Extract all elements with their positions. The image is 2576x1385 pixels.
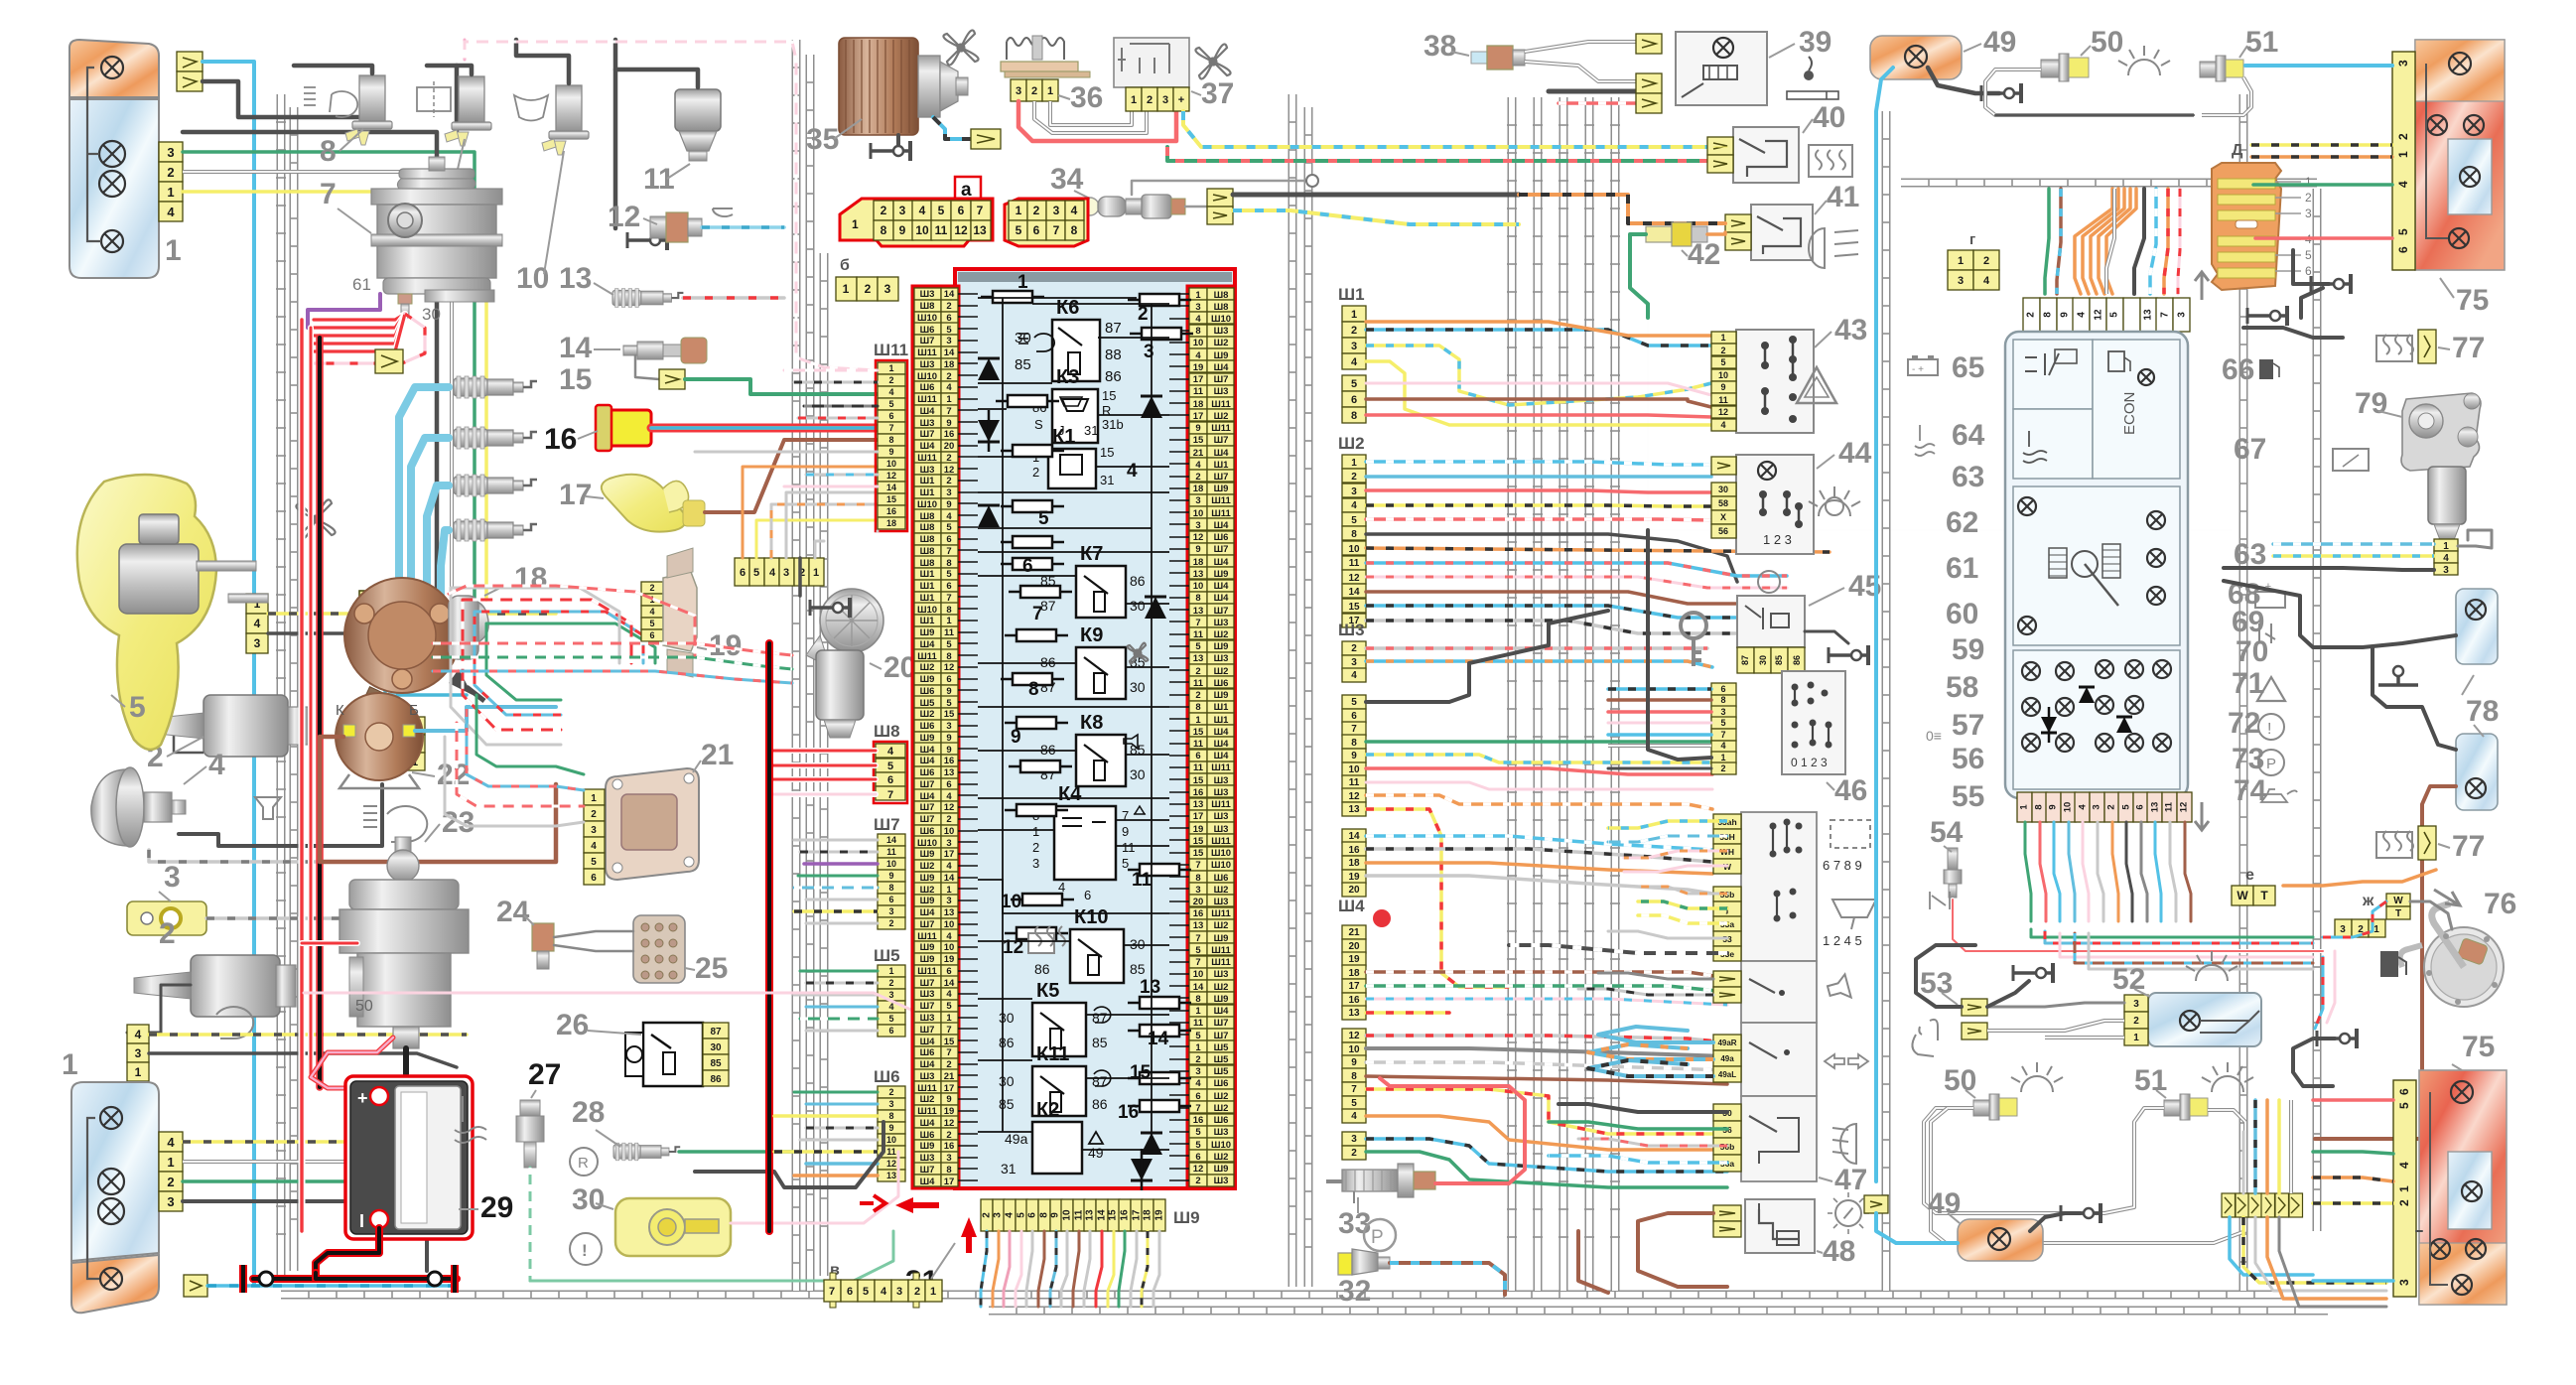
svg-text:Ш8: Ш8 [920, 558, 935, 569]
instrument cluster connector bottom [2017, 792, 2032, 822]
svg-text:67: 67 [2234, 433, 2266, 466]
wires Sh2 right [1366, 462, 1711, 465]
svg-text:Ш5: Ш5 [1214, 1054, 1230, 1065]
svg-text:18: 18 [1193, 484, 1204, 494]
connector 15 arrow [659, 369, 685, 389]
svg-text:26: 26 [556, 1009, 589, 1041]
svg-text:Ш7: Ш7 [1214, 374, 1229, 385]
svg-text:8: 8 [2043, 312, 2054, 318]
svg-text:Ш2: Ш2 [1214, 885, 1229, 896]
svg-text:Ш6: Ш6 [1214, 678, 1229, 689]
svg-text:7: 7 [1195, 1103, 1200, 1114]
svg-text:30: 30 [422, 305, 441, 324]
svg-text:К6: К6 [1056, 297, 1079, 319]
svg-text:6: 6 [2397, 1088, 2411, 1095]
svg-text:Ш2: Ш2 [920, 709, 935, 720]
wire yellow pin4 [183, 192, 486, 600]
wires Sh1 right [1366, 330, 1711, 346]
svg-text:8: 8 [888, 1111, 893, 1121]
svg-text:10: 10 [944, 826, 955, 837]
svg-text:5: 5 [1195, 1031, 1201, 1041]
svg-text:1: 1 [1195, 715, 1201, 726]
svg-text:30: 30 [1130, 598, 1146, 614]
wires Sh11 left [784, 369, 878, 372]
svg-text:4: 4 [1127, 461, 1138, 482]
svg-text:11: 11 [1193, 678, 1204, 689]
svg-text:6: 6 [1033, 223, 1040, 237]
relay K3 [1052, 389, 1098, 443]
svg-text:16: 16 [1118, 1102, 1139, 1123]
icon rear wiper [2333, 449, 2369, 471]
svg-text:10: 10 [1348, 544, 1360, 555]
svg-text:4: 4 [1720, 741, 1725, 751]
svg-text:13: 13 [1193, 569, 1204, 580]
ignition key icon [1681, 613, 1706, 638]
svg-text:Ш3: Ш3 [1214, 787, 1229, 798]
svg-text:Ш11: Ш11 [917, 1106, 937, 1117]
svg-text:Ш1: Ш1 [920, 569, 936, 580]
svg-text:8: 8 [946, 651, 951, 662]
svg-text:Ш11: Ш11 [1211, 508, 1231, 519]
svg-text:3: 3 [254, 636, 261, 650]
svg-text:4: 4 [946, 791, 952, 802]
icon triangle right [2257, 677, 2285, 701]
svg-text:44: 44 [1838, 437, 1872, 470]
svg-text:1: 1 [165, 234, 182, 267]
svg-text:61: 61 [352, 275, 371, 294]
icon dash light [1835, 1200, 1861, 1226]
voltmeter icon 65 [2025, 353, 2059, 375]
svg-text:31: 31 [1084, 423, 1098, 438]
svg-text:12: 12 [608, 201, 640, 233]
svg-text:6: 6 [946, 534, 951, 545]
svg-text:2: 2 [946, 301, 951, 312]
headlamp unit 1 top-left [69, 99, 159, 278]
svg-text:16: 16 [944, 429, 955, 440]
svg-text:5: 5 [938, 204, 945, 217]
svg-text:3: 3 [1351, 486, 1357, 497]
wire dark pin3 [183, 132, 437, 635]
svg-text:8: 8 [320, 135, 337, 168]
svg-text:P: P [2266, 756, 2276, 772]
battery ground terminals [239, 1265, 247, 1293]
wire red 36 [1018, 101, 1176, 141]
svg-text:Ш2: Ш2 [1214, 1091, 1229, 1102]
svg-text:Ш11: Ш11 [917, 966, 937, 977]
svg-text:Ш7: Ш7 [920, 336, 935, 346]
svg-text:5: 5 [946, 569, 952, 580]
svg-text:Ш7: Ш7 [920, 1165, 935, 1176]
svg-text:Ш6: Ш6 [1214, 1078, 1229, 1089]
svg-text:10: 10 [1718, 370, 1728, 380]
tail lamp 75 bottom connector [2393, 1080, 2416, 1297]
svg-text:4: 4 [1351, 500, 1357, 511]
svg-text:11: 11 [944, 627, 955, 638]
connector 654321 [735, 558, 749, 586]
svg-text:Ш2: Ш2 [1214, 982, 1229, 993]
svg-text:11: 11 [1349, 558, 1360, 569]
wire harness left inner [792, 40, 801, 1291]
svg-text:Ш9: Ш9 [920, 1141, 935, 1152]
temp gauge icon 64 [2023, 431, 2047, 463]
wire brown 32 [1390, 1263, 1505, 1295]
svg-text:86: 86 [710, 1074, 722, 1085]
svg-text:Ш7: Ш7 [1214, 472, 1229, 483]
sensor 13 [612, 289, 683, 308]
svg-text:13: 13 [1193, 799, 1204, 810]
svg-text:R: R [578, 1155, 589, 1172]
svg-text:15: 15 [1348, 602, 1360, 613]
battery 29 [345, 1076, 473, 1239]
wire dark 75 bottom ground [2293, 1039, 2335, 1086]
svg-text:12: 12 [944, 802, 955, 813]
rear wiper motor 79 [2401, 393, 2481, 471]
svg-text:10: 10 [915, 223, 929, 237]
svg-text:2: 2 [1033, 204, 1040, 217]
svg-text:5: 5 [1351, 697, 1357, 708]
svg-text:Ш9: Ш9 [1214, 1164, 1229, 1175]
svg-text:9: 9 [946, 1094, 951, 1105]
connector 19 [641, 582, 663, 594]
svg-text:8: 8 [2034, 804, 2045, 809]
svg-text:Ш7: Ш7 [874, 815, 900, 834]
icon battery left 65 [1908, 359, 1938, 375]
relay K1 [1048, 449, 1096, 488]
svg-text:4: 4 [2443, 553, 2449, 564]
svg-text:14: 14 [944, 347, 955, 358]
svg-text:5: 5 [1351, 1098, 1357, 1109]
mounting block left pin strip [912, 286, 959, 1188]
svg-text:14: 14 [559, 332, 593, 364]
svg-text:20: 20 [1348, 885, 1360, 896]
svg-text:7: 7 [1351, 1084, 1357, 1095]
lamp socket 51 top [2200, 62, 2216, 77]
svg-text:+: + [357, 1088, 368, 1108]
svg-text:Ш11: Ш11 [1211, 762, 1231, 773]
svg-text:7: 7 [887, 789, 893, 801]
wire brown 48 [1638, 1213, 1727, 1287]
connector 34 arrows [1207, 189, 1233, 207]
icon P right [2258, 750, 2284, 775]
svg-text:2: 2 [888, 978, 893, 988]
light switch 44 [1736, 455, 1814, 554]
svg-text:T: T [2260, 889, 2268, 902]
svg-text:Ш3: Ш3 [920, 1153, 935, 1164]
svg-text:75: 75 [2462, 1031, 2495, 1063]
mounting block label 31 [961, 1217, 977, 1253]
svg-text:85: 85 [1774, 655, 1784, 665]
svg-text:64: 64 [1952, 419, 1985, 452]
svg-text:21: 21 [1348, 927, 1360, 938]
svg-text:5: 5 [1195, 1127, 1201, 1138]
ignition cables blue [399, 387, 449, 604]
svg-text:11: 11 [1122, 840, 1136, 855]
svg-text:17: 17 [944, 1177, 955, 1187]
washer pump 8 [359, 75, 385, 123]
svg-text:К5: К5 [1036, 980, 1059, 1002]
svg-text:7: 7 [888, 423, 893, 433]
svg-text:54: 54 [1930, 816, 1964, 849]
wire pink dashed top run [465, 42, 878, 370]
svg-text:7: 7 [946, 1047, 951, 1058]
svg-text:Ш4: Ш4 [1214, 581, 1230, 592]
svg-text:30: 30 [999, 1010, 1015, 1026]
wire purple 61 [308, 294, 380, 328]
svg-text:4: 4 [135, 1028, 142, 1041]
dark wire 52 top [1916, 945, 1975, 1007]
svg-text:11: 11 [1349, 777, 1360, 788]
svg-text:79: 79 [2355, 387, 2387, 420]
wires to 46 [1608, 687, 1711, 691]
svg-text:Ш10: Ш10 [917, 605, 937, 616]
svg-text:Ш1: Ш1 [920, 476, 936, 486]
svg-text:5: 5 [1195, 945, 1201, 956]
svg-text:9: 9 [1122, 824, 1129, 839]
svg-text:5: 5 [888, 1014, 893, 1024]
svg-text:Ш5: Ш5 [1214, 1042, 1230, 1053]
svg-text:1: 1 [946, 1013, 952, 1024]
wire red starter [302, 940, 357, 946]
svg-text:10: 10 [1348, 1044, 1360, 1055]
svg-text:86: 86 [1092, 1096, 1108, 1112]
svg-text:87: 87 [1740, 655, 1750, 665]
svg-text:Ш11: Ш11 [917, 1083, 937, 1094]
ignition coil 22 [336, 693, 423, 780]
svg-text:13: 13 [1193, 920, 1204, 931]
additional resistor 36 [1001, 62, 1078, 71]
wire pink long bottom [304, 993, 913, 1092]
icon warning triangle [1797, 367, 1836, 403]
svg-text:14: 14 [944, 978, 955, 989]
svg-text:2: 2 [1351, 643, 1357, 654]
svg-text:27: 27 [528, 1058, 561, 1091]
svg-text:31: 31 [1100, 473, 1114, 487]
fuel gauge icon 66 [2108, 351, 2124, 371]
svg-text:К10: К10 [1074, 906, 1108, 928]
svg-text:12: 12 [1348, 573, 1360, 584]
svg-text:5: 5 [2109, 312, 2120, 318]
wires 50 51 bottom white loops [1924, 1108, 2164, 1213]
svg-text:43: 43 [1834, 314, 1867, 346]
svg-text:8: 8 [1720, 695, 1725, 705]
svg-text:6: 6 [1195, 751, 1200, 762]
svg-text:7: 7 [1195, 860, 1200, 871]
svg-text:Ш3: Ш3 [1214, 618, 1229, 628]
electric fan motor 5 [77, 475, 216, 750]
svg-text:2: 2 [1138, 304, 1149, 325]
svg-text:Ш10: Ш10 [1211, 1140, 1231, 1151]
svg-text:36: 36 [1070, 81, 1103, 114]
connector arrow 35 [971, 129, 1001, 149]
svg-text:6: 6 [1720, 684, 1725, 694]
wire brown coil left [320, 737, 556, 862]
wires cluster to right [2031, 929, 2313, 937]
svg-text:2: 2 [649, 583, 654, 593]
svg-text:3: 3 [946, 487, 951, 498]
icon 8 [330, 91, 357, 117]
svg-text:19: 19 [1348, 872, 1360, 883]
svg-text:8: 8 [946, 605, 951, 616]
svg-text:!: ! [582, 1241, 588, 1260]
svg-text:9: 9 [2048, 804, 2059, 809]
svg-text:49aR: 49aR [1717, 1039, 1736, 1047]
svg-text:Ш1: Ш1 [1338, 285, 1365, 304]
wire black trunk with red edge [316, 338, 324, 1087]
instrument cluster connector top [2023, 298, 2040, 332]
wire harness vertical right [2313, 189, 2322, 1231]
svg-text:12: 12 [1348, 791, 1360, 802]
svg-text:59: 59 [1952, 633, 1984, 666]
svg-text:3: 3 [1351, 657, 1357, 668]
wire dark 53 ground [1987, 981, 2029, 1007]
wire green 27 [529, 1168, 532, 1281]
svg-text:49a: 49a [1720, 1054, 1734, 1063]
svg-text:- +: - + [1912, 364, 1924, 375]
svg-text:2: 2 [1031, 85, 1037, 97]
svg-text:15: 15 [1193, 836, 1204, 847]
wire dark 49 ground [1928, 68, 1999, 93]
svg-text:8: 8 [946, 558, 951, 569]
svg-text:6: 6 [888, 411, 893, 421]
connector arrow bottom [184, 1275, 207, 1297]
svg-text:Ш4: Ш4 [920, 745, 936, 756]
connector 431 bottom [127, 1025, 149, 1043]
svg-text:6: 6 [1351, 394, 1357, 406]
fan icon 37 [1195, 44, 1230, 78]
svg-text:Ш4: Ш4 [1214, 751, 1230, 762]
svg-text:16: 16 [886, 506, 896, 516]
icon fuel right [2259, 359, 2273, 379]
svg-text:К3: К3 [1056, 366, 1079, 388]
svg-text:Ш1: Ш1 [920, 487, 936, 498]
icon 9 [417, 87, 451, 111]
svg-text:8: 8 [881, 223, 887, 237]
svg-text:5: 5 [1038, 508, 1049, 529]
svg-text:1: 1 [167, 185, 174, 200]
svg-text:1: 1 [62, 1048, 78, 1081]
svg-text:16: 16 [1193, 1115, 1204, 1126]
svg-text:17: 17 [1193, 411, 1204, 422]
svg-text:Ш11: Ш11 [917, 347, 937, 358]
svg-text:66: 66 [2222, 353, 2254, 386]
svg-text:Ш2: Ш2 [920, 885, 935, 896]
icon foglamp small [216, 1007, 253, 1039]
ignition module 21 [606, 768, 699, 880]
svg-text:2: 2 [167, 165, 174, 180]
svg-text:12: 12 [1193, 532, 1204, 543]
temp icon [455, 1096, 486, 1143]
svg-text:87: 87 [710, 1027, 722, 1038]
svg-text:12: 12 [1193, 1164, 1204, 1175]
svg-text:4: 4 [1720, 420, 1725, 430]
svg-text:13: 13 [944, 767, 955, 778]
wires dark top washers [294, 66, 372, 73]
svg-text:25: 25 [695, 952, 728, 985]
cigarette lighter 39 [1676, 32, 1767, 105]
temp sensor 27 [520, 1100, 540, 1116]
brake fluid sensor 2 top [203, 695, 288, 757]
svg-text:19: 19 [1348, 954, 1360, 965]
svg-text:Ш10: Ш10 [917, 838, 937, 849]
svg-text:Ш5: Ш5 [920, 698, 936, 709]
park brake sensor 32 [1364, 1219, 1396, 1251]
svg-text:3: 3 [896, 1286, 902, 1298]
wire pink dashed from 30 [314, 314, 425, 363]
wire starter to battery [403, 1048, 409, 1074]
wire loop pump2 [127, 985, 191, 1033]
hatch lamp 78 second [2456, 734, 2498, 810]
svg-text:6: 6 [1351, 711, 1357, 722]
svg-text:Ш2: Ш2 [920, 861, 935, 872]
distributor 18 [344, 578, 460, 693]
svg-text:1: 1 [1131, 94, 1137, 106]
svg-text:85: 85 [1130, 961, 1146, 977]
svg-text:1: 1 [2019, 804, 2030, 810]
svg-text:4: 4 [1005, 1212, 1016, 1218]
svg-text:3: 3 [2340, 924, 2346, 935]
svg-text:10: 10 [944, 942, 955, 953]
icon coolant temp left 64 [1915, 425, 1935, 456]
svg-text:Ш11: Ш11 [1211, 799, 1231, 810]
svg-text:3: 3 [1720, 707, 1725, 717]
wire 13 [683, 296, 784, 300]
svg-text:Ш2: Ш2 [1214, 338, 1229, 348]
svg-text:50: 50 [355, 998, 373, 1015]
fan icon 35 [943, 30, 978, 65]
icon 10 [514, 95, 548, 121]
svg-text:Ш3: Ш3 [1214, 653, 1229, 664]
svg-text:1: 1 [888, 363, 893, 373]
svg-text:Ш7: Ш7 [920, 919, 935, 930]
svg-text:Ш7: Ш7 [920, 779, 935, 790]
svg-text:2: 2 [1195, 690, 1200, 701]
connector a main [840, 199, 993, 246]
svg-text:Ш3: Ш3 [920, 1013, 935, 1024]
column switch 47 [1741, 812, 1817, 961]
svg-text:1: 1 [946, 394, 952, 405]
svg-text:Ш7: Ш7 [920, 1025, 935, 1036]
svg-text:7: 7 [2160, 312, 2171, 318]
svg-text:15: 15 [944, 1037, 955, 1047]
svg-text:19: 19 [944, 954, 955, 965]
wire dark 49b ground [2030, 1213, 2080, 1231]
svg-text:Ш8: Ш8 [874, 722, 900, 741]
relay K9 [1076, 647, 1126, 699]
svg-text:Ш4: Ш4 [920, 1177, 936, 1187]
svg-text:8: 8 [1195, 326, 1200, 337]
svg-text:3: 3 [2443, 565, 2449, 576]
svg-text:Ш10: Ш10 [1211, 314, 1231, 325]
svg-text:е: е [2245, 867, 2254, 884]
svg-text:4: 4 [1071, 204, 1078, 217]
wire cyan 12 [702, 225, 784, 229]
svg-text:14: 14 [886, 483, 896, 492]
svg-text:6: 6 [946, 581, 951, 592]
svg-text:8: 8 [1195, 994, 1200, 1005]
svg-text:2: 2 [159, 917, 176, 950]
svg-text:3: 3 [2092, 804, 2102, 809]
wire 16 thick red [651, 424, 878, 433]
svg-text:11: 11 [886, 847, 896, 857]
svg-text:49: 49 [1088, 1145, 1104, 1161]
svg-text:2: 2 [1195, 472, 1200, 483]
svg-text:8: 8 [1039, 1212, 1050, 1218]
svg-text:51: 51 [2134, 1064, 2167, 1097]
svg-text:Ш11: Ш11 [917, 394, 937, 405]
rear window heat switch 40 [1733, 127, 1799, 183]
fanfare 17 [602, 475, 686, 532]
svg-text:5: 5 [2305, 248, 2312, 262]
